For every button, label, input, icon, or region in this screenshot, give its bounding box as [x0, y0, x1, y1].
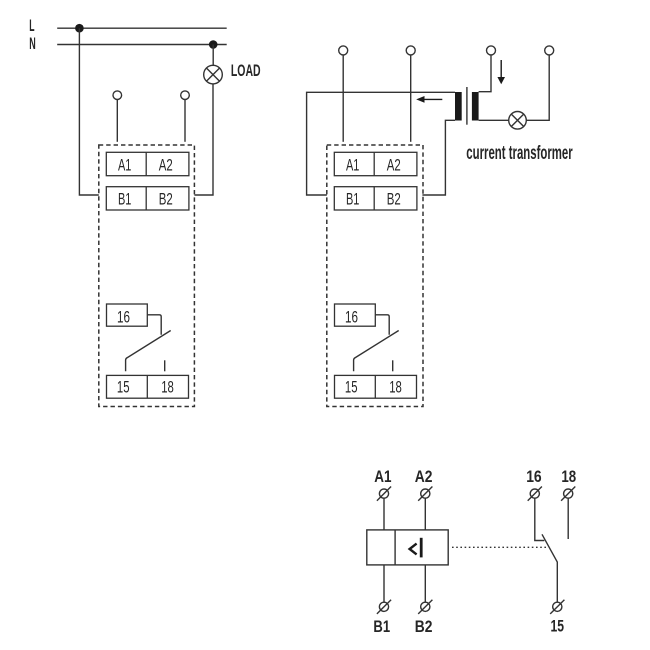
- current transformer T1 secondary bar: [455, 92, 462, 121]
- terminal block A1 A2 (K1): [106, 152, 189, 175]
- svg-text:B1: B1: [346, 191, 359, 209]
- contact stub 18 (K2): [392, 360, 394, 371]
- svg-text:B1: B1: [373, 618, 390, 636]
- wire lamp to terminal B2: [194, 84, 213, 195]
- wire terminal to A1 (circuit 2): [342, 55, 344, 142]
- junction on L line: [75, 24, 84, 33]
- wire A2 to device: [424, 498, 426, 530]
- net N label: [29, 35, 36, 53]
- svg-text:L: L: [29, 17, 34, 35]
- screw terminal 18: [561, 487, 575, 501]
- wire 16 to fixed contact: [535, 498, 545, 540]
- pin label 15 (device symbol): [551, 618, 565, 636]
- terminal block B1 B2 (K2): [334, 187, 417, 210]
- svg-text:B2: B2: [159, 191, 173, 209]
- svg-text:N: N: [29, 35, 36, 53]
- label LOAD: [231, 62, 261, 80]
- wire CT secondary top to B1: [307, 92, 455, 195]
- svg-text:16: 16: [345, 308, 358, 326]
- svg-text:16: 16: [526, 468, 542, 486]
- junction on N line: [209, 40, 218, 49]
- screw terminal 15: [550, 600, 564, 614]
- wire terminal to A2: [184, 100, 186, 142]
- screw terminal B1: [377, 600, 391, 614]
- supply terminal circle right: [181, 91, 190, 100]
- svg-text:LOAD: LOAD: [231, 62, 261, 80]
- output contact blade: [542, 534, 557, 602]
- svg-text:B1: B1: [118, 191, 131, 209]
- supply terminal circle 2 (circuit 2): [406, 46, 415, 55]
- svg-text:A2: A2: [415, 468, 433, 486]
- supply terminal circle 1 (circuit 2): [339, 46, 348, 55]
- screw terminal B2: [418, 600, 432, 614]
- terminal block A1 A2 (K2): [334, 152, 417, 175]
- relay contact blade (K2): [354, 331, 399, 372]
- svg-text:A1: A1: [346, 156, 359, 174]
- terminal block 15 18 (K2): [335, 375, 417, 398]
- label current transformer: [466, 142, 573, 164]
- wire N to lamp: [212, 45, 214, 66]
- wire CT primary bottom to lamp: [479, 119, 509, 121]
- wire lamp to terminal 4: [526, 55, 549, 120]
- svg-text:current transformer: current transformer: [466, 142, 573, 164]
- svg-text:A1: A1: [118, 156, 131, 174]
- wire device to B2: [424, 565, 426, 602]
- wire CT secondary bottom to B2: [422, 120, 455, 195]
- terminal box 16 (K2): [335, 304, 376, 326]
- svg-text:A1: A1: [374, 468, 391, 486]
- wire N line: [57, 44, 227, 46]
- pin label A2: [159, 156, 173, 174]
- pin label 18 (device symbol): [561, 468, 576, 486]
- device body U1: [367, 530, 448, 565]
- pin label A1 (device symbol): [374, 468, 391, 486]
- wire L line: [57, 27, 227, 29]
- pin label B1 (device symbol): [373, 618, 390, 636]
- wire L to terminal B1: [79, 28, 98, 195]
- pin label A1: [118, 156, 131, 174]
- pin label B2 (device symbol): [415, 618, 433, 636]
- wire terminal to A2 (circuit 2): [410, 55, 412, 142]
- svg-text:15: 15: [551, 618, 565, 636]
- contact stub 18 (K1): [164, 360, 166, 371]
- terminal block 15 18 (K1): [107, 375, 189, 398]
- wire device to B1: [383, 565, 385, 602]
- terminal box 16 (K1): [107, 304, 148, 326]
- screw terminal 16: [528, 487, 542, 501]
- terminal block B1 B2 (K1): [106, 187, 189, 210]
- svg-text:B2: B2: [415, 618, 433, 636]
- pin label A2 (device symbol): [415, 468, 433, 486]
- pin label 16 (device symbol): [526, 468, 542, 486]
- pin label B2: [159, 191, 173, 209]
- pin label A1 (K2): [346, 156, 359, 174]
- wire 16 to contact (K2): [375, 315, 389, 335]
- relay contact blade (K1): [126, 331, 171, 372]
- svg-text:15: 15: [117, 378, 130, 396]
- supply terminal circle 3 (circuit 2): [487, 46, 496, 55]
- pin label 15: [117, 378, 130, 396]
- relay K1 dashed outline: [99, 145, 195, 407]
- threshold symbol inside device: [410, 538, 422, 558]
- screw terminal A1: [377, 487, 391, 501]
- svg-text:15: 15: [345, 378, 358, 396]
- pin label A2 (K2): [387, 156, 401, 174]
- current transformer T1 core line: [466, 87, 468, 125]
- lamp E2 (circuit 2): [509, 112, 527, 130]
- supply terminal circle left: [113, 91, 122, 100]
- lamp LOAD E1: [204, 65, 223, 84]
- wire terminal to A1: [116, 100, 118, 142]
- wire A1 to device: [383, 498, 385, 530]
- wire 18 open end: [567, 498, 569, 539]
- pin label 18: [161, 378, 174, 396]
- svg-text:16: 16: [117, 308, 130, 326]
- pin label 18 (K2): [389, 378, 402, 396]
- supply terminal circle 4 (circuit 2): [545, 46, 554, 55]
- pin label 16: [117, 308, 130, 326]
- wire 16 to contact: [147, 315, 161, 335]
- pin label 15 (K2): [345, 378, 358, 396]
- svg-text:18: 18: [161, 378, 174, 396]
- net L label: [29, 17, 34, 35]
- pin label 16 (K2): [345, 308, 358, 326]
- svg-text:18: 18: [389, 378, 402, 396]
- svg-text:B2: B2: [387, 191, 401, 209]
- svg-text:A2: A2: [159, 156, 173, 174]
- pin label B1: [118, 191, 131, 209]
- svg-text:18: 18: [561, 468, 576, 486]
- screw terminal A2: [418, 487, 432, 501]
- pin label B1 (K2): [346, 191, 359, 209]
- current transformer T1 primary bar: [472, 92, 479, 121]
- relay K2 dashed outline: [327, 145, 423, 407]
- current direction arrow down: [497, 60, 505, 84]
- pin label B2 (K2): [387, 191, 401, 209]
- wire terminal 3 to CT primary: [479, 55, 491, 92]
- dotted actuation link: [452, 546, 549, 548]
- secondary current arrow left: [416, 96, 442, 103]
- svg-text:A2: A2: [387, 156, 401, 174]
